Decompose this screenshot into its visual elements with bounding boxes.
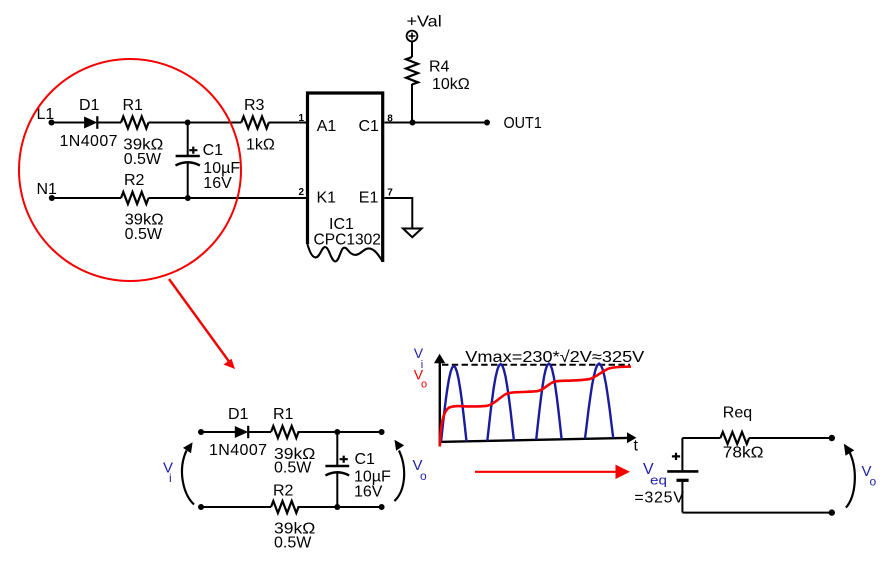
wire top left segment xyxy=(682,437,720,439)
graph x-axis xyxy=(439,432,637,443)
wire D1 to R1 xyxy=(97,122,121,124)
wire pin7 to ground xyxy=(385,198,413,229)
wire to D1 xyxy=(201,431,235,433)
diode D1 (detail) xyxy=(235,426,248,438)
resistor R2 xyxy=(121,192,149,204)
svg-text:i: i xyxy=(169,471,172,485)
node junction bottom dot xyxy=(185,195,191,201)
wire R1 to junction xyxy=(149,122,242,124)
capacitor C1 plus (detail) xyxy=(340,456,348,463)
wire L1 to D1 xyxy=(52,122,85,124)
node L1 dot xyxy=(49,120,55,126)
resistor R4 xyxy=(406,57,418,84)
svg-text:R1: R1 xyxy=(123,97,144,114)
capacitor C1 (detail) xyxy=(325,432,349,507)
graph Vmax dashed line xyxy=(442,364,630,366)
label Vo right xyxy=(862,463,877,489)
node dot top-left xyxy=(198,429,204,435)
svg-text:D1: D1 xyxy=(228,406,249,423)
svg-text:0.5W: 0.5W xyxy=(274,535,312,552)
red zoom arrow xyxy=(169,279,235,369)
wire N1 to R2 xyxy=(52,197,121,199)
svg-text:10kΩ: 10kΩ xyxy=(432,76,470,93)
svg-text:o: o xyxy=(420,469,427,483)
red zoom circle xyxy=(19,59,241,281)
svg-text:16V: 16V xyxy=(203,175,232,192)
wire pin8 to OUT1 xyxy=(385,122,488,124)
blue hump 2 xyxy=(487,364,514,441)
svg-text:A1: A1 xyxy=(317,118,337,135)
resistor R1 xyxy=(121,117,149,129)
Vo arrow arc right xyxy=(844,444,855,508)
power +Val terminal xyxy=(407,31,418,42)
capacitor C1 plus sign xyxy=(189,147,197,154)
svg-text:R2: R2 xyxy=(273,483,294,500)
Vo arrow arc (detail) xyxy=(394,440,404,501)
svg-text:Req: Req xyxy=(723,405,752,422)
blue hump 1 xyxy=(441,366,467,442)
svg-text:R1: R1 xyxy=(273,406,294,423)
svg-text:=325V: =325V xyxy=(634,490,684,507)
node top-right dot (detail) xyxy=(379,429,385,435)
svg-text:OUT1: OUT1 xyxy=(504,115,542,132)
ground xyxy=(403,229,422,238)
svg-text:+Val: +Val xyxy=(407,14,442,31)
svg-text:R4: R4 xyxy=(429,59,450,76)
wire Req to node xyxy=(749,437,832,439)
node junction top dot xyxy=(185,120,191,126)
svg-text:R2: R2 xyxy=(124,172,145,189)
svg-text:N1: N1 xyxy=(37,181,58,198)
label Vi graph xyxy=(414,345,424,371)
node N1 dot xyxy=(49,195,55,201)
node junction R4/OUT dot xyxy=(410,120,416,126)
svg-text:eq: eq xyxy=(650,473,667,488)
op-coupler IC1 box xyxy=(308,93,383,262)
svg-text:C1: C1 xyxy=(359,118,380,135)
svg-text:0.5W: 0.5W xyxy=(274,460,312,477)
svg-text:C1: C1 xyxy=(203,142,224,159)
battery plus sign xyxy=(672,453,680,460)
resistor R1 (detail) xyxy=(271,426,299,438)
wire R1 to right (detail) xyxy=(298,431,382,433)
svg-text:E1: E1 xyxy=(359,190,379,207)
svg-text:Vmax=230*√2V≈325V: Vmax=230*√2V≈325V xyxy=(465,349,644,366)
capacitor C1 top xyxy=(176,123,200,199)
node top-right dot xyxy=(829,435,835,441)
node OUT1 dot xyxy=(484,120,490,126)
blue hump 3 xyxy=(536,364,561,440)
svg-text:1N4007: 1N4007 xyxy=(60,133,118,150)
svg-text:2: 2 xyxy=(298,187,304,198)
wire left vertical bottom xyxy=(681,482,683,513)
wire bottom xyxy=(682,512,831,514)
node junction bottom (detail) xyxy=(334,504,340,510)
wire R3 to IC pin 1 xyxy=(269,122,307,124)
resistor Req xyxy=(720,432,749,444)
label Vo (detail) xyxy=(413,457,428,483)
node dot bottom-left (detail) xyxy=(198,504,204,510)
svg-text:IC1: IC1 xyxy=(329,216,354,233)
svg-text:0.5W: 0.5W xyxy=(124,151,162,168)
svg-text:16V: 16V xyxy=(354,484,383,501)
resistor R2 (detail) xyxy=(271,501,299,513)
svg-text:o: o xyxy=(421,379,427,391)
svg-text:D1: D1 xyxy=(79,97,100,114)
resistor R3 xyxy=(241,117,269,129)
svg-text:0.5W: 0.5W xyxy=(125,226,163,243)
wire R2 to IC pin 2 xyxy=(149,197,308,199)
diode D1 xyxy=(84,116,97,129)
node bottom-right dot (detail) xyxy=(379,504,385,510)
svg-text:t: t xyxy=(634,438,639,455)
label Vi xyxy=(163,460,173,486)
label Vo graph xyxy=(414,367,427,391)
svg-text:C1: C1 xyxy=(355,451,376,468)
svg-text:78kΩ: 78kΩ xyxy=(723,444,764,461)
wire +Val to R4 xyxy=(411,41,413,57)
graph y-axis xyxy=(434,354,445,446)
svg-text:o: o xyxy=(870,475,877,489)
Vi arrow arc xyxy=(182,442,194,504)
wire D1 to R1 (detail) xyxy=(248,431,271,433)
IC1 torn wavy bottom edge xyxy=(307,244,382,262)
wire R2 to right (detail) xyxy=(298,506,382,508)
label Veq xyxy=(643,461,667,488)
svg-text:1kΩ: 1kΩ xyxy=(246,137,275,154)
svg-text:1: 1 xyxy=(298,113,304,124)
blue hump 4 xyxy=(585,364,613,439)
svg-text:7: 7 xyxy=(387,187,393,198)
node junction top (detail) xyxy=(334,429,340,435)
battery Veq xyxy=(667,471,698,480)
wire to R2 (detail) xyxy=(201,506,271,508)
svg-text:CPC1302: CPC1302 xyxy=(314,232,381,249)
node bottom-right dot xyxy=(829,509,835,515)
svg-text:R3: R3 xyxy=(244,97,265,114)
wire R4 to junction xyxy=(411,84,413,123)
red equivalence arrow xyxy=(475,465,630,479)
wire left vertical top xyxy=(681,438,683,470)
red Vo charging curve xyxy=(440,367,631,447)
svg-text:1N4007: 1N4007 xyxy=(209,442,267,459)
svg-text:K1: K1 xyxy=(317,190,337,207)
